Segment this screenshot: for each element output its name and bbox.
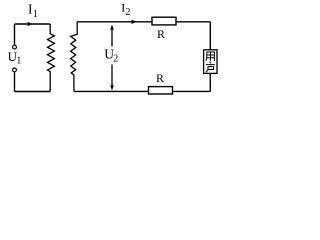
glyph 户 (household) — [206, 62, 215, 73]
wire: right edge lower — [209, 73, 211, 91]
label U1 — [8, 49, 22, 67]
label I2 — [121, 1, 130, 18]
label I1 — [28, 2, 38, 21]
wire: secondary loop top left segment — [77, 21, 152, 23]
label U2 — [104, 46, 118, 64]
resistor R bottom box — [149, 87, 173, 94]
wire: secondary loop bottom right segment — [173, 90, 211, 92]
svg-text:1: 1 — [33, 9, 38, 20]
wire: secondary loop bottom left segment — [74, 90, 149, 92]
load box (user) — [204, 50, 217, 74]
transformer primary coil L1 — [48, 24, 55, 92]
current arrow I1 head — [28, 22, 33, 26]
svg-text:1: 1 — [16, 56, 21, 67]
resistor R top box — [152, 17, 176, 25]
svg-text:2: 2 — [113, 54, 118, 65]
wire: primary loop left lower — [14, 72, 16, 92]
current arrow I2 head — [132, 20, 137, 24]
svg-text:2: 2 — [125, 7, 130, 18]
source terminal circle top — [13, 45, 17, 49]
wire: primary loop left upper — [14, 24, 16, 45]
voltage arrow U2 lower segment with down arrowhead — [110, 65, 114, 91]
wire: primary loop bottom — [15, 91, 51, 93]
wire: primary loop top — [15, 23, 51, 25]
wire: right edge upper — [209, 22, 211, 50]
wire: secondary loop top right segment — [176, 21, 210, 23]
source terminal circle bottom — [13, 68, 17, 72]
svg-text:R: R — [156, 71, 164, 85]
svg-text:R: R — [157, 27, 165, 41]
glyph 用 (use) — [206, 52, 215, 61]
voltage arrow U2 upper segment with up arrowhead — [110, 25, 114, 47]
transformer secondary coil L2 — [71, 22, 78, 92]
